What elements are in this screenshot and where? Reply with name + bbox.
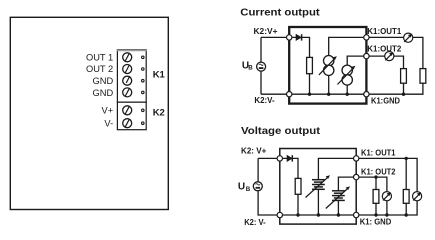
svg-text:K2:V+: K2:V+	[254, 27, 278, 36]
load resistor RL3	[373, 190, 379, 204]
screw terminal 2	[123, 65, 132, 74]
svg-text:K1:GND: K1:GND	[371, 96, 400, 105]
load resistor RL4	[403, 190, 409, 204]
wire left rail upper (voltage)	[257, 158, 259, 182]
inner bottom rail (current)	[289, 93, 366, 95]
wire left rail lower	[260, 71, 262, 94]
node K1:GND (current)	[364, 92, 369, 97]
wire OUT1 to right rail (voltage)	[356, 158, 417, 191]
svg-text:K1: OUT1: K1: OUT1	[361, 148, 396, 157]
svg-text:B: B	[248, 65, 253, 72]
meter M4 (voltage OUT1)	[413, 192, 422, 201]
svg-text:K1: K1	[153, 69, 166, 80]
svg-text:K2: V+: K2: V+	[241, 147, 267, 156]
resistor R2 (inside voltage box)	[295, 178, 301, 194]
junction dot	[346, 93, 349, 96]
junction dot	[374, 213, 377, 216]
svg-text:K1: GND: K1: GND	[360, 217, 392, 226]
adjustable source VS1	[306, 175, 331, 197]
wire resistor to bottom rail	[309, 74, 311, 95]
wire VS2 top to OUT2	[338, 177, 356, 191]
svg-text:V+: V+	[102, 105, 114, 115]
wire CS2 top to OUT2	[347, 56, 366, 65]
screw terminal 5	[123, 106, 132, 115]
junction dot	[385, 213, 388, 216]
svg-text:U: U	[238, 182, 245, 193]
wire left rail upper	[260, 37, 262, 62]
node K2:V- (voltage)	[277, 212, 282, 217]
terminal block K2 body	[117, 102, 146, 130]
current source CS1	[319, 56, 337, 76]
svg-text:K2: K2	[153, 108, 165, 119]
svg-text:OUT 1: OUT 1	[86, 52, 113, 62]
junction dot	[317, 213, 320, 216]
node K1:OUT2 (voltage)	[354, 174, 359, 179]
svg-text:OUT 2: OUT 2	[86, 64, 113, 74]
junction dot	[308, 93, 311, 96]
wire V- lead to node	[261, 93, 289, 95]
load resistor RL2 (mid rail)	[401, 69, 407, 84]
meter M1 (current OUT1)	[404, 33, 413, 42]
node K1:OUT1 (current)	[364, 35, 369, 40]
wire OUT1 to right rail	[366, 37, 423, 68]
node K1:OUT1 (voltage)	[354, 156, 359, 161]
node K2:V+ (voltage)	[277, 156, 282, 161]
svg-text:V-: V-	[104, 118, 113, 128]
svg-text:GND: GND	[93, 76, 114, 86]
junction dot	[405, 157, 408, 160]
supply source UB (current)	[257, 62, 266, 71]
wire node to diode and down to resistor (voltage)	[280, 158, 298, 178]
wire VS1 top to OUT1	[318, 158, 356, 179]
node K1:OUT2 (current)	[364, 53, 369, 58]
device enclosure box	[10, 17, 168, 209]
pin hole dots	[142, 56, 145, 124]
wire CS1 to bottom rail	[328, 76, 330, 95]
current source CS2	[337, 65, 355, 85]
wire V+ lead to node	[258, 157, 280, 159]
wire resistor RL3 branch (voltage OUT2)	[375, 177, 377, 215]
meter M2 (current OUT2)	[385, 52, 394, 61]
wire CS1 top to OUT1	[329, 37, 367, 55]
junction dot	[327, 93, 330, 96]
node K1:GND (voltage)	[354, 212, 359, 217]
device box (voltage output)	[280, 149, 356, 225]
wire left rail lower (voltage)	[258, 191, 280, 215]
junction dot	[405, 213, 408, 216]
diode D1 (current)	[296, 34, 302, 40]
junction dot	[337, 213, 340, 216]
diode D2 (voltage)	[287, 155, 292, 161]
label U_B (voltage)	[238, 182, 251, 193]
wire RL2 to GND rail	[403, 83, 405, 94]
svg-text:Current output: Current output	[240, 7, 320, 18]
junction dot	[296, 213, 299, 216]
svg-text:B: B	[246, 186, 251, 193]
terminal labels	[86, 52, 113, 128]
svg-text:K2: V-: K2: V-	[244, 218, 266, 227]
device box (current output)	[289, 27, 366, 104]
screw terminal 6	[123, 119, 132, 128]
screw terminal 1	[123, 53, 132, 62]
svg-text:GND: GND	[93, 88, 114, 98]
screw terminal 4	[123, 88, 132, 97]
svg-text:K2:V-: K2:V-	[254, 96, 275, 105]
wire CS2 to bottom rail	[346, 85, 348, 94]
svg-text:K1: OUT2: K1: OUT2	[361, 167, 396, 176]
wire OUT2 to mid rail	[366, 56, 403, 69]
svg-text:Voltage output: Voltage output	[241, 126, 321, 137]
wire meter M4 to GND rail	[356, 201, 417, 215]
wire resistor to bottom rail (voltage)	[297, 194, 299, 215]
meter M3 (voltage OUT2)	[382, 192, 391, 201]
adjustable source VS2	[326, 186, 350, 208]
wire VS1 to bottom rail	[317, 189, 319, 215]
screw terminal 3	[123, 76, 132, 85]
label U_B (current)	[242, 61, 253, 72]
resistor R1 (inside box)	[307, 57, 313, 73]
wire node to diode and down to resistor	[289, 37, 309, 57]
svg-text:K1:OUT2: K1:OUT2	[367, 45, 402, 54]
wire OUT2 to mid rail (voltage)	[356, 177, 387, 192]
junction dot	[374, 175, 377, 178]
wire V+ lead to node	[261, 36, 289, 38]
junction dot	[402, 93, 405, 96]
terminal block K1 body	[117, 50, 147, 102]
node K2:V- (current)	[287, 92, 292, 97]
wire meter M3 to GND rail	[386, 201, 388, 215]
supply source UB (voltage)	[253, 182, 262, 191]
node K2:V+ (current)	[287, 35, 292, 40]
inner bottom rail (voltage)	[280, 214, 356, 216]
wire VS2 to bottom rail	[337, 200, 339, 215]
wire RL1 to GND rail	[366, 83, 423, 94]
svg-text:K1:OUT1: K1:OUT1	[367, 27, 402, 36]
wire resistor RL4 branch (voltage OUT1)	[405, 158, 407, 215]
load resistor RL1 (right rail)	[420, 69, 426, 84]
